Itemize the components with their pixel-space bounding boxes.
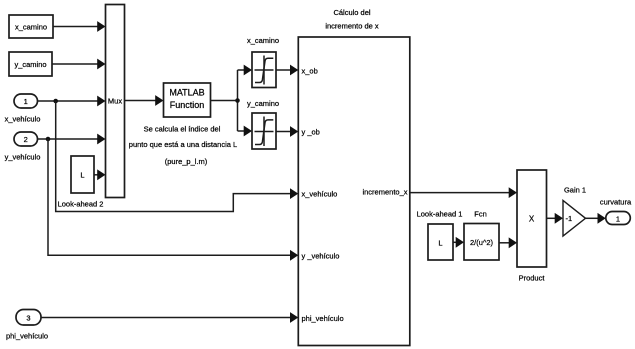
wire saturation2 to y_ob: [276, 126, 298, 137]
svg-text:Mux: Mux: [108, 97, 122, 106]
wire x_camino to Mux: [53, 21, 106, 32]
source block x_camino: [9, 15, 53, 38]
inport 1 x_vehiculo: [5, 94, 41, 123]
svg-text:Look-ahead 2: Look-ahead 2: [58, 199, 104, 208]
junction on x_vehiculo wire: [53, 99, 58, 104]
wire into saturation 1: [238, 65, 253, 76]
subsystem block Calculo del incremento de x: [298, 37, 410, 346]
wire x_vehiculo branch to subsystem: [56, 101, 299, 212]
junction on saturation feed: [235, 98, 240, 103]
constant block L (Look-ahead 1): [428, 224, 453, 260]
svg-text:1: 1: [24, 97, 28, 106]
svg-text:x_ob: x_ob: [302, 67, 318, 76]
svg-text:Se calcula el índice del: Se calcula el índice del: [144, 125, 221, 134]
wire Product to Gain: [547, 213, 564, 224]
wire MATLAB Function to saturation junction: [211, 70, 238, 131]
svg-text:Fcn: Fcn: [474, 210, 487, 219]
svg-text:x_camino: x_camino: [247, 36, 279, 45]
svg-text:y _ob: y _ob: [302, 128, 320, 137]
svg-text:Cálculo del: Cálculo del: [333, 8, 370, 17]
svg-text:x_vehículo: x_vehículo: [302, 189, 338, 198]
wire inport2 to Mux: [38, 134, 106, 145]
Fcn block 2/(u^2): [464, 224, 499, 261]
svg-text:Gain 1: Gain 1: [564, 186, 586, 195]
wire y_camino to Mux: [52, 59, 106, 70]
svg-text:L: L: [80, 171, 84, 180]
svg-text:x_vehículo: x_vehículo: [5, 114, 41, 123]
svg-text:y_camino: y_camino: [247, 99, 279, 108]
saturation block 1: [252, 52, 276, 88]
wire inport1 to Mux: [38, 96, 106, 107]
svg-text:y_camino: y_camino: [14, 60, 46, 69]
saturation block 2: [252, 113, 276, 149]
Mux block: [106, 5, 125, 198]
svg-text:incremento_x: incremento_x: [362, 188, 407, 197]
outport 1 curvatura: [606, 212, 631, 225]
junction on y_vehiculo wire: [46, 137, 51, 142]
svg-text:X: X: [529, 215, 535, 224]
wire L to Fcn: [453, 237, 464, 248]
svg-text:incremento de x: incremento de x: [325, 22, 379, 31]
svg-text:1: 1: [616, 214, 620, 223]
MATLAB Function block: [164, 83, 211, 117]
source block y_camino: [9, 52, 52, 76]
gain triangle -1: [563, 201, 586, 237]
svg-text:y_vehículo: y_vehículo: [5, 152, 41, 161]
inport 3 phi_vehiculo: [6, 310, 48, 341]
svg-text:2/(u^2): 2/(u^2): [470, 238, 494, 247]
wire Fcn to Product: [499, 237, 517, 248]
constant block L (Look-ahead 2): [58, 156, 104, 208]
svg-text:MATLAB: MATLAB: [169, 87, 204, 97]
svg-text:L: L: [438, 238, 442, 247]
wire saturation1 to x_ob: [276, 65, 298, 76]
svg-text:phi_vehículo: phi_vehículo: [302, 314, 344, 323]
svg-text:(pure_p_l.m): (pure_p_l.m): [165, 157, 208, 166]
svg-text:x_camino: x_camino: [15, 22, 47, 31]
svg-text:-1: -1: [566, 214, 573, 223]
wire into saturation 2: [238, 126, 253, 137]
svg-text:3: 3: [26, 314, 30, 323]
svg-text:Function: Function: [170, 100, 205, 110]
Product block: [517, 170, 547, 282]
svg-text:2: 2: [24, 135, 28, 144]
wire Gain to outport: [586, 213, 606, 224]
svg-text:Product: Product: [519, 273, 546, 282]
wire inport3 to subsystem: [41, 312, 298, 323]
wire incremento_x to Product: [410, 187, 517, 198]
svg-text:curvatura: curvatura: [600, 197, 632, 206]
inport 2 y_vehiculo: [5, 132, 41, 161]
svg-text:phi_vehículo: phi_vehículo: [6, 331, 48, 340]
svg-text:Look-ahead 1: Look-ahead 1: [417, 210, 463, 219]
wire y_vehiculo branch to subsystem: [48, 139, 298, 261]
svg-text:punto que está a una distancia: punto que está a una distancia L: [129, 140, 237, 149]
subsystem title Calculo del incremento de x: [325, 8, 379, 31]
wire L to Mux: [94, 169, 106, 180]
svg-text:y _vehículo: y _vehículo: [302, 251, 340, 260]
wire Mux to MATLAB Function: [125, 95, 164, 106]
